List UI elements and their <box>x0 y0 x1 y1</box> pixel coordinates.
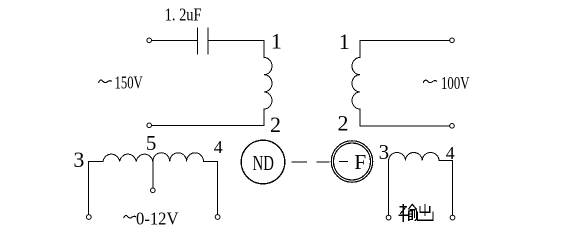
svg-text:ND: ND <box>253 151 274 175</box>
terminal J7 <box>215 215 220 220</box>
inductor T1 secondary winding 0-12V <box>89 153 218 162</box>
wire (left leg) <box>88 162 90 215</box>
wire <box>152 39 198 41</box>
svg-text:2: 2 <box>338 110 349 135</box>
wire (left leg) <box>388 161 390 215</box>
svg-text:150V: 150V <box>115 72 143 92</box>
inductor T1 primary winding <box>264 58 272 110</box>
svg-text:5: 5 <box>146 131 157 155</box>
capacitor C1 <box>198 28 209 54</box>
inductor T2 primary winding <box>352 58 360 110</box>
wire (center tap 5) <box>152 162 154 188</box>
wire (dashed link) <box>292 161 329 163</box>
svg-text:2: 2 <box>270 112 281 137</box>
wire (right leg) <box>452 161 454 215</box>
terminal J9 <box>450 215 455 220</box>
indicator lamp F (double circle) <box>331 141 372 182</box>
label ~100V <box>423 80 436 83</box>
wire (right leg) <box>217 162 219 215</box>
svg-text:3: 3 <box>379 140 390 164</box>
terminal J2 (~150V bottom input) <box>147 123 152 128</box>
wire <box>360 109 449 126</box>
terminal J8 <box>386 215 391 220</box>
terminal J4 (~100V bottom) <box>450 124 455 129</box>
terminal J5 <box>86 215 91 220</box>
svg-text:3: 3 <box>73 147 84 172</box>
label 输出 (output) <box>399 204 433 221</box>
terminal J1 (~150V top input) <box>147 38 152 43</box>
terminal J3 (~100V top) <box>450 38 455 43</box>
wire <box>208 40 264 57</box>
inductor T2 secondary winding (output) <box>389 153 453 161</box>
svg-text:1: 1 <box>271 29 282 54</box>
svg-text:4: 4 <box>214 137 223 157</box>
svg-text:1. 2uF: 1. 2uF <box>165 5 202 25</box>
svg-text:0-12V: 0-12V <box>136 209 179 229</box>
svg-text:1: 1 <box>339 29 350 54</box>
label ~150V <box>99 80 112 83</box>
wire <box>152 109 264 125</box>
indicator lamp ND <box>241 140 285 184</box>
svg-text:100V: 100V <box>441 73 470 93</box>
wire <box>360 40 449 57</box>
svg-text:F: F <box>354 150 366 174</box>
label -F <box>339 160 347 162</box>
terminal J6 (tap) <box>151 188 156 193</box>
label ~0-12V <box>124 216 136 218</box>
